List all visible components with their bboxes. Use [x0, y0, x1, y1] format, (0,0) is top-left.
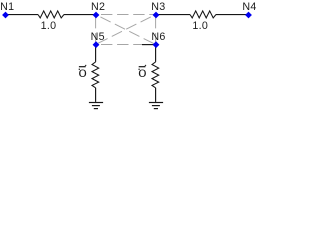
svg-text:N5: N5	[91, 31, 105, 43]
svg-text:N2: N2	[91, 1, 105, 13]
svg-text:1.0: 1.0	[192, 20, 208, 32]
svg-text:N3: N3	[151, 1, 165, 13]
svg-text:N4: N4	[242, 1, 256, 13]
svg-text:N1: N1	[0, 1, 14, 13]
svg-text:N6: N6	[151, 31, 165, 43]
svg-text:1.0: 1.0	[41, 20, 57, 32]
